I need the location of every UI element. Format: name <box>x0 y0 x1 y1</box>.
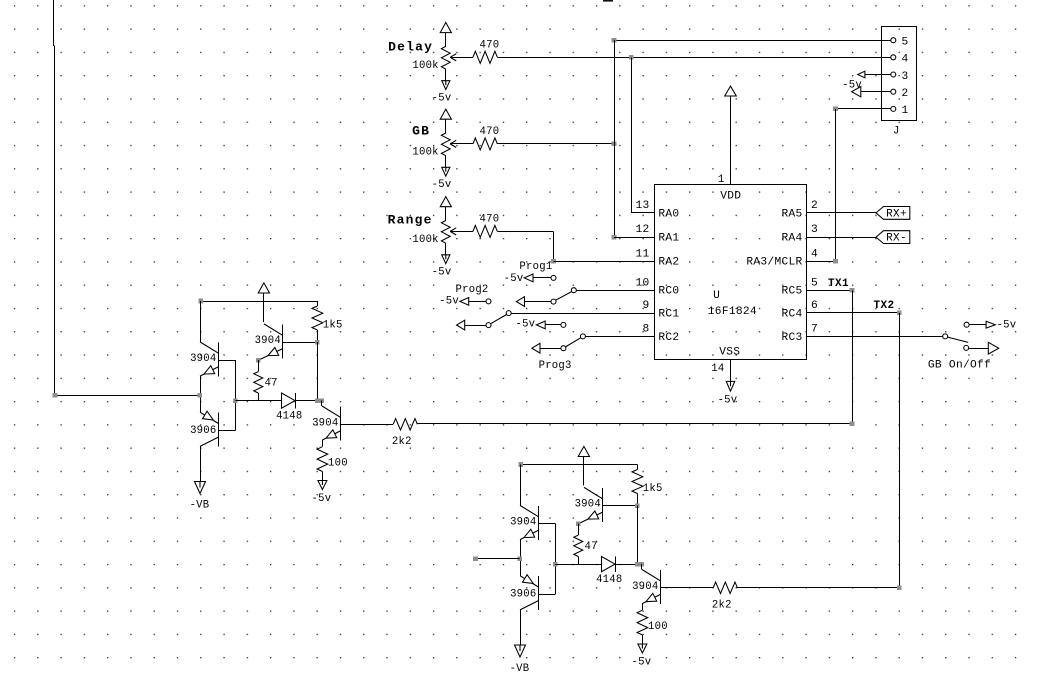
node (Delay / RA0 junction) <box>629 55 634 60</box>
wire 1k5 node down (lower) <box>637 506 639 564</box>
wire pin5/GB net vertical to RA1 <box>614 40 616 237</box>
svg-text:13: 13 <box>635 200 649 212</box>
-5v terminal circle (GB On/Off) <box>964 322 969 327</box>
wire J pin 1 lead <box>836 108 891 110</box>
wire -5v to contact (Prog2) <box>469 301 486 303</box>
svg-text:-VB: -VB <box>510 663 530 675</box>
node (rail left end) (left) <box>198 299 203 304</box>
wire emitters vertical (left) <box>200 376 202 412</box>
switch Prog2 contact circle <box>486 299 491 304</box>
-5v arrow below Range pot <box>445 243 447 255</box>
svg-text:VDD: VDD <box>720 190 741 202</box>
wire RC1 lead <box>511 313 655 315</box>
node (input junction) (lower) <box>517 556 522 561</box>
-5v arrow below GB pot <box>445 156 447 168</box>
resistor 47 (left) <box>258 360 260 371</box>
switch Prog3 contact circle <box>561 322 566 327</box>
svg-text:-5v: -5v <box>515 318 535 330</box>
svg-text:9: 9 <box>642 300 649 312</box>
svg-text:100: 100 <box>648 621 668 633</box>
transistor Q 3904 (upper mirror pair) (lower) <box>520 505 538 516</box>
svg-text:4: 4 <box>902 54 909 66</box>
wire RC5 lead (TX1 net) <box>807 290 852 292</box>
node (RA2 / Prog1 junction) <box>551 259 556 264</box>
resistor 1k5 (lower) <box>637 465 639 470</box>
RX+ flag <box>876 207 910 220</box>
diode 4148 (left) <box>282 393 296 408</box>
connector J pin 3 circle <box>891 72 896 77</box>
-5v arrow flag (pin 2) <box>852 87 861 97</box>
svg-text:-VB: -VB <box>190 500 210 512</box>
wire moving contact to flag (RC1) <box>460 325 487 327</box>
resistor 100 (left) <box>317 447 328 472</box>
wire input stub (lower driver) <box>476 558 520 560</box>
wire moving contact to flag (RC2) <box>535 348 562 350</box>
wire TX1 vertical <box>852 290 854 424</box>
wire base lead Q3 (lower) <box>602 505 637 507</box>
-5v arrow (100R) (lower) <box>638 644 647 653</box>
wire diode to node (lower) <box>615 564 637 566</box>
wire collector drop Q1 (lower) <box>520 465 522 506</box>
wire RC4 lead (TX2 net) <box>807 312 899 314</box>
svg-text:J: J <box>893 126 900 138</box>
transistor Q 3904 (upper mirror pair) (left) <box>200 342 218 353</box>
svg-text:47: 47 <box>585 541 598 553</box>
svg-text:2k2: 2k2 <box>392 436 412 448</box>
svg-text:-5v: -5v <box>439 295 459 307</box>
svg-text:-5v: -5v <box>997 320 1017 332</box>
wire 1k5 node down (left) <box>317 342 319 400</box>
arrow flag (pin 3) <box>858 71 865 78</box>
svg-text:3904: 3904 <box>255 335 281 347</box>
wire TX2 vertical <box>899 313 901 588</box>
resistor 470 (Delay) <box>473 51 498 63</box>
node (pin 1 corner) <box>833 107 838 112</box>
svg-text:1: 1 <box>718 174 725 186</box>
wire collector drop Q3 (lower) <box>583 456 585 485</box>
wire RC0 lead <box>576 290 655 292</box>
-VB arrow (lower) <box>515 645 526 657</box>
wire -5v to contact (Prog1) <box>533 277 551 279</box>
wire -5v to contact (Prog3 net) <box>545 324 561 326</box>
svg-text:Range: Range <box>388 212 433 227</box>
wire base Q4 to 2k2 (left) <box>340 424 393 426</box>
svg-text:RC4: RC4 <box>781 309 802 321</box>
wire (long vertical net from top-left) <box>53 0 55 46</box>
wire collector drop Q4 (left) <box>321 401 323 406</box>
node (collector Q4 tap) (lower) <box>640 562 645 567</box>
wire moving contact to flag (RC0) <box>524 301 551 303</box>
wire J pin 3 stub <box>865 74 891 76</box>
svg-text:-5v: -5v <box>631 656 651 668</box>
resistor 470 (GB) <box>473 138 498 150</box>
svg-text:GB On/Off: GB On/Off <box>928 359 991 371</box>
node (RA1 corner) <box>612 235 617 240</box>
switch RC0 lever <box>556 292 572 301</box>
svg-text:1: 1 <box>902 105 909 117</box>
svg-text:8: 8 <box>642 324 649 336</box>
node (RA3/MCLR junction) <box>833 259 838 264</box>
svg-text:1k5: 1k5 <box>323 319 343 331</box>
svg-text:RC0: RC0 <box>658 286 679 298</box>
svg-text:TX2: TX2 <box>874 300 895 312</box>
wire collector Q2 to -VB (left) <box>200 446 202 481</box>
svg-text:5: 5 <box>902 37 909 49</box>
svg-text:RX+: RX+ <box>886 208 907 220</box>
VDD power arrow <box>725 86 737 96</box>
svg-text:470: 470 <box>480 126 500 138</box>
arrow flag (RC1 switch) <box>457 320 465 330</box>
svg-text:3906: 3906 <box>190 425 216 437</box>
svg-text:RA2: RA2 <box>658 257 679 269</box>
connector J outline <box>882 27 917 121</box>
node (diode net) (left) <box>315 398 320 403</box>
node (collector Q4 tap) (left) <box>320 398 325 403</box>
wire base Q4 to 2k2 (lower) <box>660 587 713 589</box>
svg-text:14: 14 <box>711 363 724 375</box>
wire base lead Q2 (left) <box>218 430 235 432</box>
wire RA4 to RX- <box>807 237 876 239</box>
wire Delay net (row to connector pin 4) <box>497 57 891 59</box>
wire collector drop Q4 (lower) <box>641 564 643 569</box>
svg-text:470: 470 <box>480 213 500 225</box>
RX- flag <box>876 231 910 244</box>
svg-text:RA1: RA1 <box>658 233 679 245</box>
wire RA2 pin 11 lead <box>554 261 655 263</box>
svg-text:Delay: Delay <box>388 40 433 55</box>
arrow flag (RC2 switch) <box>532 343 540 353</box>
wire base lead Q2 (lower) <box>538 594 555 596</box>
switch Prog1 contact circle <box>551 275 556 280</box>
switch RC1 fixed contact <box>506 311 511 316</box>
svg-text:100k: 100k <box>412 234 438 246</box>
svg-text:2: 2 <box>811 200 818 212</box>
svg-text:1k5: 1k5 <box>643 483 663 495</box>
power arrow (+V) (lower) <box>578 446 589 456</box>
node (1k5 bottom / base Q3) (lower) <box>635 503 640 508</box>
svg-text:47: 47 <box>265 377 278 389</box>
svg-text:3904: 3904 <box>190 353 216 365</box>
wire RA1 pin 12 lead <box>614 237 655 239</box>
svg-text:Prog1: Prog1 <box>519 261 552 273</box>
svg-text:-5v: -5v <box>432 267 452 279</box>
resistor 2k2 (lower) <box>713 582 737 593</box>
svg-text:VSS: VSS <box>719 346 740 358</box>
-5v arrow (VSS) <box>726 381 735 391</box>
node (base rail junction) (lower) <box>553 562 558 567</box>
svg-text:Prog2: Prog2 <box>456 284 489 296</box>
connector J pin 5 circle <box>891 38 896 43</box>
svg-text:TX1: TX1 <box>828 278 849 290</box>
wire diode net (left) <box>235 400 281 402</box>
svg-text:100k: 100k <box>412 146 438 158</box>
svg-text:-5v: -5v <box>432 179 452 191</box>
wire base lead Q1 (lower) <box>538 523 555 525</box>
switch RC2 moving contact <box>561 346 566 351</box>
svg-text:11: 11 <box>635 248 649 260</box>
switch GB On/Off lever <box>948 337 969 342</box>
node (1k5 bottom / base Q3) (left) <box>315 340 320 345</box>
resistor 470 (Range) <box>473 225 498 237</box>
wire supply rail (left) <box>201 301 318 303</box>
wire emitter Q4 down (left) <box>322 440 324 447</box>
svg-text:Prog3: Prog3 <box>539 360 572 372</box>
wire 2k2 output to TX1 net <box>417 423 852 425</box>
svg-text:2k2: 2k2 <box>712 599 732 611</box>
arrow flag (RC0 switch) <box>516 297 524 307</box>
diode 4148 (lower) <box>602 557 616 572</box>
svg-text:RC2: RC2 <box>658 332 679 344</box>
svg-text:7: 7 <box>811 324 818 336</box>
node (47R top junction) (lower) <box>576 521 581 526</box>
svg-text:3904: 3904 <box>510 517 536 529</box>
wire GB net (row to junction) <box>497 143 614 145</box>
power arrow (+V) (left) <box>258 283 269 293</box>
wire collector Q2 to -VB (lower) <box>520 610 522 645</box>
wire to -5v arrow <box>969 324 986 326</box>
wire (clipped fragment at top edge) <box>603 0 613 2</box>
resistor 100 (lower) <box>637 610 648 635</box>
switch RC1 moving contact <box>486 323 491 328</box>
switch RC2 fixed contact <box>580 334 585 339</box>
power arrow (+V) above GB pot <box>440 109 451 119</box>
svg-text:16F1824: 16F1824 <box>708 306 757 318</box>
node (47R top junction) (left) <box>256 358 261 363</box>
svg-text:3: 3 <box>902 71 909 83</box>
-5v arrow below Delay pot <box>445 69 447 81</box>
resistor 2k2 (left) <box>393 419 417 430</box>
node (input junction) (left) <box>197 393 202 398</box>
wire diode net (lower) <box>555 564 601 566</box>
transistor Q 3904 (output) (lower) <box>642 570 660 581</box>
node (TX2 corner) <box>897 311 902 316</box>
switch RC2 lever <box>566 338 581 347</box>
transistor Q 3906 (left) <box>200 412 218 423</box>
connector J pin 4 circle <box>891 55 896 60</box>
transistor Q 3904 (output) (left) <box>322 406 340 417</box>
svg-text:100k: 100k <box>412 60 438 72</box>
wire 2k2 output to TX2 net <box>736 587 899 589</box>
wire Range net (row to corner) <box>497 231 553 233</box>
wire emitter Q4 down (lower) <box>642 604 644 611</box>
svg-text:-5v: -5v <box>718 394 738 406</box>
wire base rail (left) <box>235 360 237 430</box>
node (TX2 bottom corner) <box>897 586 902 591</box>
wire base lead Q1 (left) <box>218 360 235 362</box>
switch GB On/Off fixed contact <box>943 334 948 339</box>
potentiometer 100k Delay <box>441 46 450 69</box>
svg-text:4: 4 <box>811 248 818 260</box>
node (corner of long input wire) <box>53 393 58 398</box>
wire diode to node (left) <box>295 400 317 402</box>
wire RA0 pin 13 lead <box>631 212 654 214</box>
wire base lead Q3 (left) <box>282 342 317 344</box>
-5v arrow flag (Prog2) <box>460 298 469 306</box>
resistor 1k5 (left) <box>317 301 319 306</box>
svg-text:12: 12 <box>635 224 649 236</box>
node (input stub end, lower driver) <box>473 556 478 561</box>
connector J pin 2 circle <box>891 89 896 94</box>
svg-text:RX-: RX- <box>886 233 907 245</box>
svg-text:RA3/MCLR: RA3/MCLR <box>746 257 802 269</box>
switch RC0 moving contact <box>551 299 556 304</box>
svg-text:2: 2 <box>902 88 909 100</box>
switch RC0 fixed contact <box>571 288 576 293</box>
svg-text:-5v: -5v <box>432 93 452 105</box>
node (pin5 net corner) <box>612 38 617 43</box>
wire pin5 net horizontal <box>614 40 891 42</box>
svg-text:3904: 3904 <box>312 417 338 429</box>
transistor Q 3906 (lower) <box>520 576 538 587</box>
svg-text:-5v: -5v <box>504 273 524 285</box>
wire (horizontal into left driver) <box>54 395 199 397</box>
svg-text:5: 5 <box>811 277 818 289</box>
wire RC3 lead <box>807 336 943 338</box>
resistor 47 (lower) <box>578 524 580 535</box>
-5v arrow (100R) (left) <box>318 481 327 490</box>
svg-text:100: 100 <box>328 457 348 469</box>
node (GB / RA1 junction) <box>612 142 617 147</box>
svg-text:3: 3 <box>811 224 818 236</box>
transistor Q 3904 (middle) (lower) <box>584 487 602 498</box>
svg-text:RA0: RA0 <box>658 208 679 220</box>
svg-text:470: 470 <box>480 39 500 51</box>
wire to flag (GB On/Off) <box>969 348 989 350</box>
wire pin1 to RA3/MCLR vertical <box>835 109 837 261</box>
wire collector drop Q1 (left) <box>200 301 202 342</box>
-5v arrow flag right <box>986 321 995 328</box>
wire emitters vertical (lower) <box>520 540 522 576</box>
svg-text:RC1: RC1 <box>658 309 679 321</box>
transistor Q 3904 (middle) (left) <box>264 324 282 335</box>
node (diode net) (lower) <box>635 562 640 567</box>
svg-text:10: 10 <box>635 277 649 289</box>
power arrow (+V) above Delay pot <box>440 23 451 33</box>
svg-text:RA4: RA4 <box>781 233 802 245</box>
node (TX1 net lower corner) <box>850 421 855 426</box>
wire Range net vertical <box>553 231 555 261</box>
wire Delay net vertical to RA0 <box>631 57 633 213</box>
wire VSS lead <box>730 359 732 381</box>
svg-text:6: 6 <box>811 300 818 312</box>
-5v arrow flag (Prog1) <box>524 274 533 282</box>
potentiometer 100k GB <box>441 133 450 156</box>
node (rail left end) (lower) <box>518 462 523 467</box>
wire collector drop Q3 (left) <box>263 293 265 322</box>
-5v arrow flag (Prog3 net) <box>536 321 545 329</box>
node (base rail junction) (left) <box>233 398 238 403</box>
switch GB On/Off moving contact <box>964 345 969 350</box>
arrow flag right (GB On/Off) <box>988 342 998 354</box>
power arrow (+V) above Range pot <box>440 197 451 207</box>
svg-text:4148: 4148 <box>276 411 302 423</box>
svg-text:GB: GB <box>412 124 430 139</box>
wire supply rail (lower) <box>521 464 638 466</box>
potentiometer 100k Range <box>441 221 450 244</box>
switch RC1 lever <box>491 314 507 323</box>
IC U 16F1824 outline <box>655 185 807 360</box>
wire RA3/MCLR lead <box>807 261 836 263</box>
wire base rail (lower) <box>555 524 557 594</box>
wire RC2 lead <box>586 336 655 338</box>
node (TX1 corner) <box>850 288 855 293</box>
connector J pin 1 circle <box>891 106 896 111</box>
wire RA5 to RX+ <box>807 212 876 214</box>
svg-text:3904: 3904 <box>632 581 658 593</box>
svg-text:U: U <box>713 290 720 302</box>
svg-text:RC3: RC3 <box>781 332 802 344</box>
svg-text:4148: 4148 <box>596 574 622 586</box>
wire J pin 2 stub <box>861 91 891 93</box>
svg-text:-5v: -5v <box>311 493 331 505</box>
svg-text:RC5: RC5 <box>781 286 802 298</box>
svg-text:RA5: RA5 <box>781 208 802 220</box>
svg-text:3906: 3906 <box>510 589 536 601</box>
svg-text:3904: 3904 <box>575 499 601 511</box>
-VB arrow (left) <box>195 482 206 494</box>
